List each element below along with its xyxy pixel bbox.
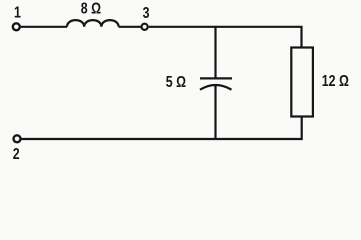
inductor L1 bbox=[67, 20, 119, 27]
resistor R1 bbox=[291, 48, 313, 117]
wire terminal1 to inductor bbox=[21, 26, 67, 28]
capacitor C1 top plate bbox=[200, 77, 232, 79]
node 3 label bbox=[143, 4, 150, 22]
node 1 label bbox=[14, 3, 21, 21]
svg-text:3: 3 bbox=[143, 4, 150, 22]
capacitor value 5 Ω bbox=[166, 73, 186, 91]
terminal 1 bbox=[13, 23, 20, 30]
node 3 bbox=[142, 24, 148, 30]
wire capacitor to bottom junction bbox=[214, 86, 216, 140]
svg-text:1: 1 bbox=[14, 3, 21, 21]
svg-text:12 Ω: 12 Ω bbox=[322, 71, 349, 89]
node 2 label bbox=[13, 145, 20, 163]
wire top junction to capacitor bbox=[214, 27, 216, 78]
inductor value 8 Ω bbox=[81, 0, 101, 17]
resistor value 12 Ω bbox=[322, 71, 349, 89]
svg-text:5 Ω: 5 Ω bbox=[166, 73, 186, 91]
wire inductor to node 3 bbox=[119, 26, 142, 28]
terminal 2 bbox=[14, 135, 21, 142]
wire node 3 to top-right corner bbox=[149, 27, 302, 47]
capacitor C1 curved plate bbox=[200, 85, 232, 90]
wire resistor to bottom-right corner bbox=[21, 117, 302, 140]
svg-text:8 Ω: 8 Ω bbox=[81, 0, 101, 17]
svg-text:2: 2 bbox=[13, 145, 20, 160]
